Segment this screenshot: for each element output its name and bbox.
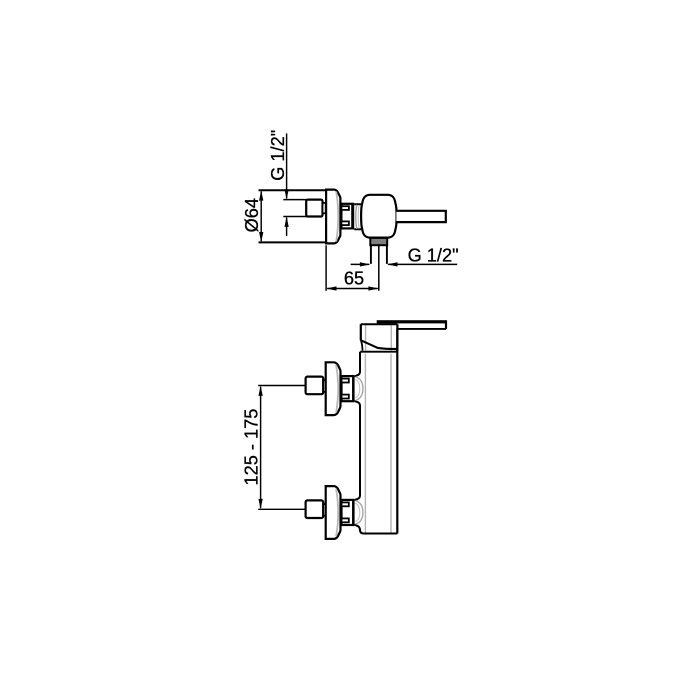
svg-text:Ø64: Ø64 bbox=[242, 198, 262, 232]
svg-text:G 1/2": G 1/2" bbox=[268, 130, 288, 181]
svg-text:G 1/2": G 1/2" bbox=[408, 246, 459, 266]
svg-text:125 - 175: 125 - 175 bbox=[242, 409, 262, 486]
svg-text:65: 65 bbox=[344, 269, 364, 289]
